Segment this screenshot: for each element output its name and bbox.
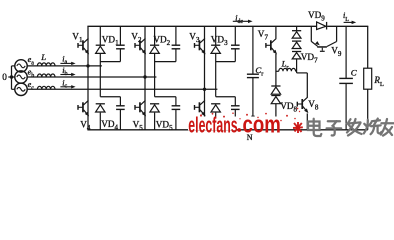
svg-text:elecfans: elecfans <box>188 113 237 138</box>
svg-text:0: 0 <box>2 72 7 82</box>
svg-text:L: L <box>40 52 46 62</box>
svg-text:com: com <box>243 110 281 138</box>
svg-text:C: C <box>351 67 357 77</box>
